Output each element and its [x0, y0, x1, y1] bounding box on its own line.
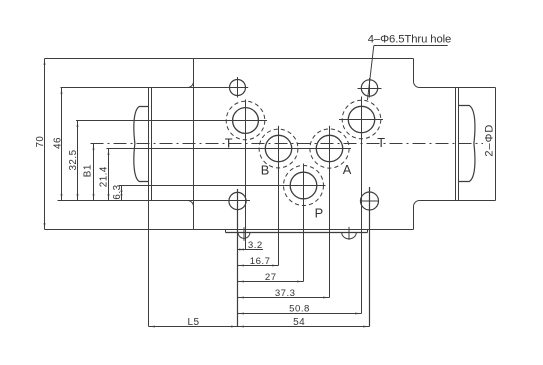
svg-text:B1: B1 — [83, 164, 94, 177]
svg-text:46: 46 — [52, 137, 63, 149]
dimension L5 and 54 — [149, 326, 370, 328]
dimension 50.8 — [238, 313, 362, 315]
mounting hole bottom-left — [229, 192, 246, 209]
svg-text:54: 54 — [293, 317, 305, 328]
valve body outline — [45, 58, 414, 60]
svg-text:P: P — [315, 205, 324, 220]
svg-text:37.3: 37.3 — [275, 288, 296, 299]
svg-text:70: 70 — [35, 136, 46, 148]
svg-text:27: 27 — [265, 272, 277, 283]
svg-text:6.3: 6.3 — [112, 184, 123, 199]
dimension 37.3 — [238, 297, 330, 299]
port T left crosshair — [76, 120, 267, 122]
dimension B1 — [93, 144, 95, 201]
port T left solid circle — [233, 108, 259, 134]
solenoid top fillet into body — [188, 82, 194, 88]
svg-text:21.4: 21.4 — [99, 166, 110, 187]
port T right crosshair — [339, 119, 383, 121]
port B crosshair / extension lines — [107, 148, 352, 150]
svg-text:4–Φ6.5Thru hole: 4–Φ6.5Thru hole — [368, 34, 452, 46]
port P dashed circle — [284, 166, 324, 206]
port T left dashed circle — [226, 101, 265, 140]
dimension 6.3 — [121, 186, 123, 201]
svg-text:T: T — [225, 136, 233, 151]
mounting hole bottom-right — [361, 192, 379, 210]
dimension 27 — [238, 281, 304, 283]
dimension 70 — [44, 59, 46, 230]
port A dashed circle — [310, 129, 349, 168]
body bottom-right fillet — [414, 201, 420, 207]
solenoid left edge double line — [148, 88, 150, 201]
body top-right fillet — [414, 82, 420, 88]
svg-text:T: T — [377, 135, 385, 150]
svg-text:16.7: 16.7 — [250, 256, 271, 267]
port A solid circle — [316, 135, 342, 161]
dimension 3.2 — [238, 249, 264, 251]
right end cap rectangle — [420, 87, 496, 89]
mounting hole top-left — [230, 80, 246, 96]
L5 extension line (solenoid left) — [148, 201, 150, 327]
port T right solid circle — [348, 106, 374, 132]
port P solid circle — [290, 172, 317, 199]
subplate hole notch left — [238, 233, 250, 239]
solenoid bottom fillet into body — [188, 201, 194, 207]
svg-text:50.8: 50.8 — [289, 304, 310, 315]
svg-text:3.2: 3.2 — [248, 240, 263, 251]
svg-text:L5: L5 — [187, 317, 199, 328]
port B solid circle — [265, 135, 291, 161]
solenoid tube top edge / extension line through top-left hole — [61, 87, 249, 89]
mounting hole top-right — [361, 80, 377, 96]
port B dashed circle — [259, 129, 298, 168]
solenoid tube bottom edge / extension line through bottom-left hole — [58, 200, 251, 202]
svg-text:32.5: 32.5 — [68, 149, 79, 170]
dimension 32.5 — [77, 121, 79, 201]
main horizontal centerline (dash-dot) — [91, 143, 484, 145]
coil nut arc (left end) — [134, 107, 149, 182]
dimension 16.7 — [238, 265, 279, 267]
dimension 21.4 — [108, 149, 110, 201]
port T right dashed circle — [342, 100, 381, 139]
cap arc (right bulge) — [459, 106, 475, 182]
subplate hole notch right — [342, 233, 357, 239]
dimension 46 — [61, 88, 63, 201]
cap inner double line — [455, 88, 457, 201]
svg-text:A: A — [343, 162, 352, 177]
port P crosshair / extension — [119, 185, 326, 187]
flange bottom line — [226, 232, 368, 234]
svg-text:2–ΦD: 2–ΦD — [484, 124, 496, 157]
svg-text:B: B — [261, 162, 270, 177]
port A vertical extension — [329, 126, 331, 298]
